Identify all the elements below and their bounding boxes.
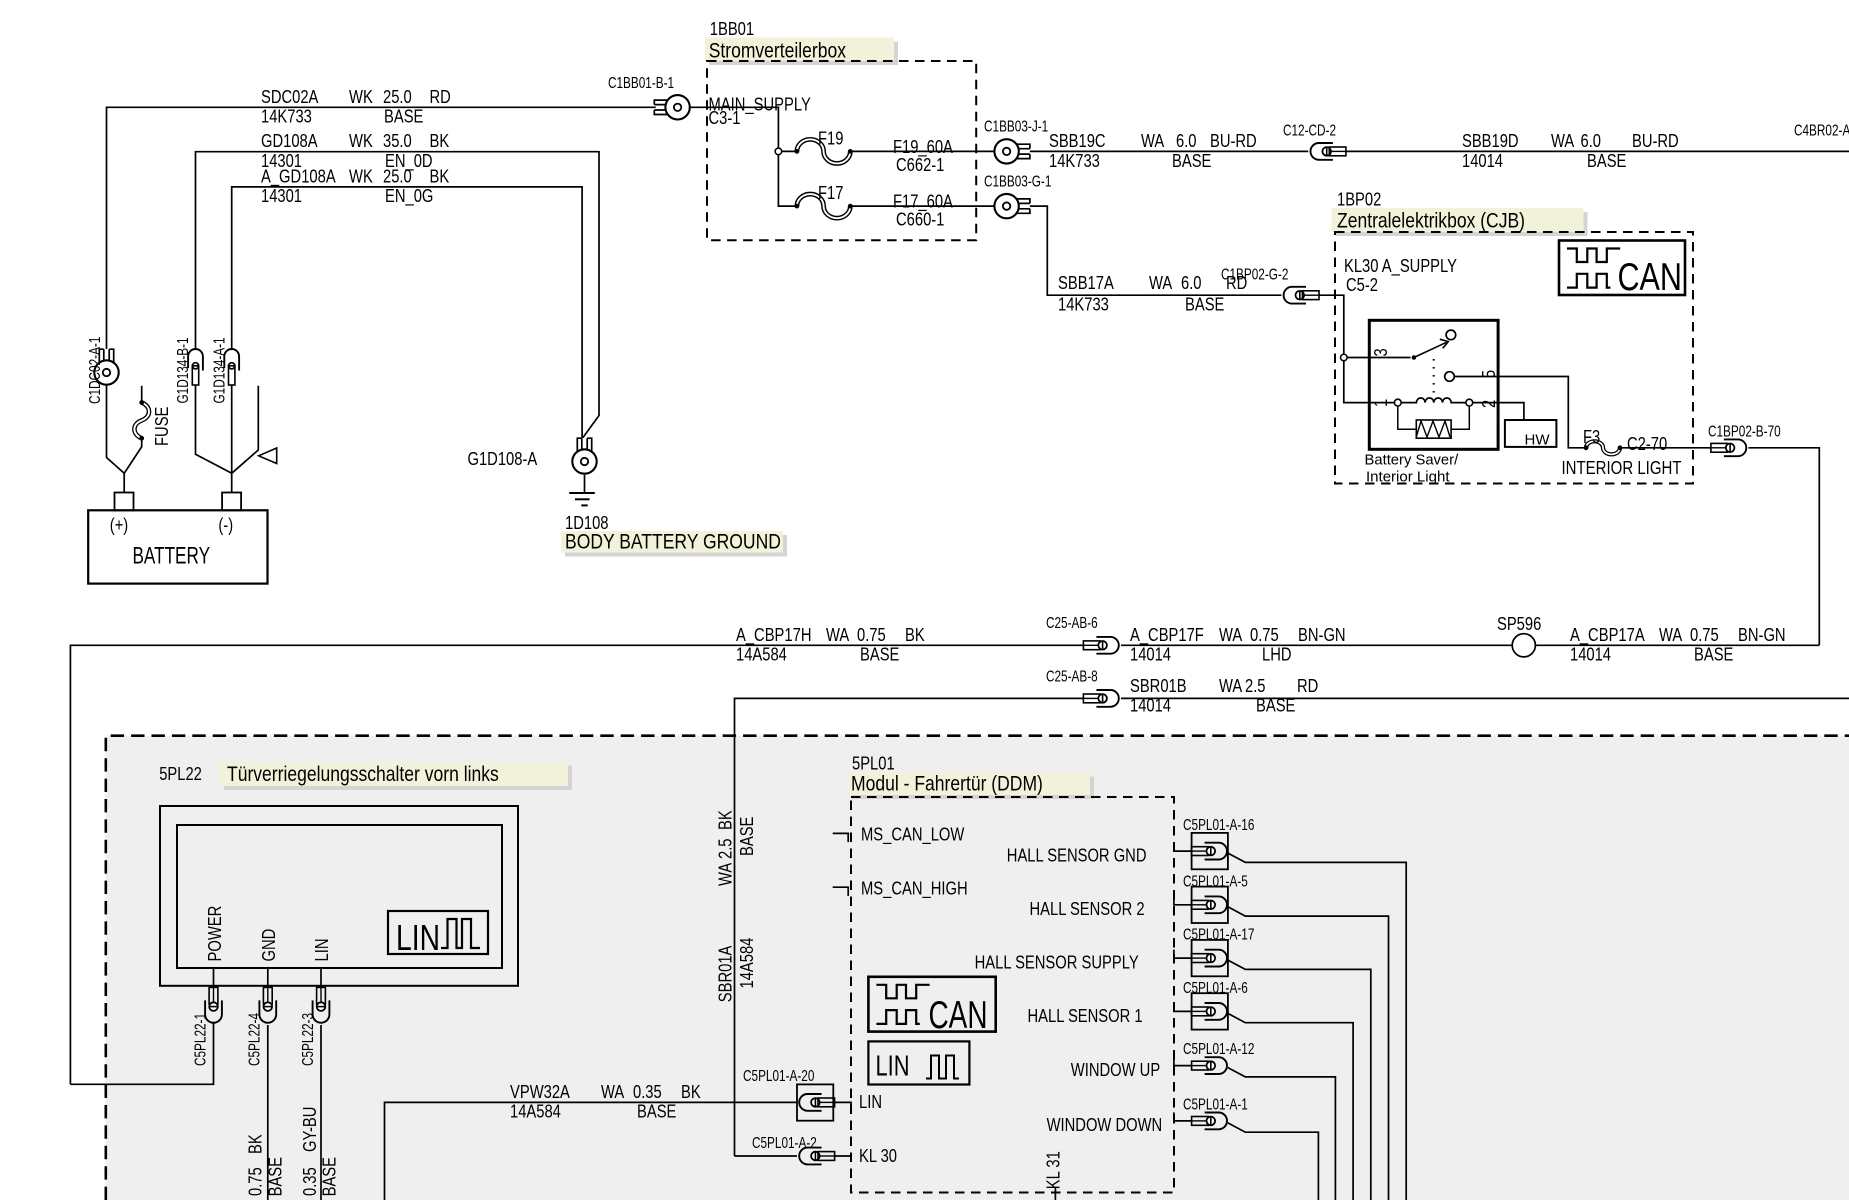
svg-text:C5PL01-A-6: C5PL01-A-6 xyxy=(1183,980,1248,997)
wire GND pin xyxy=(267,968,269,987)
connector C5PL22-4 xyxy=(263,987,272,1004)
svg-text:C5PL22-3: C5PL22-3 xyxy=(300,1013,317,1066)
MS_CAN_HIGH stub xyxy=(833,887,849,896)
connector C1DC02-A-1 ring xyxy=(99,349,113,363)
connector C1BB03-J-1 ring xyxy=(1016,144,1030,158)
svg-text:GD108A: GD108A xyxy=(261,131,318,151)
relay coil xyxy=(1401,398,1466,403)
svg-text:1: 1 xyxy=(1371,399,1391,407)
connector C1BP02-B-70 xyxy=(1711,443,1728,452)
svg-text:2.5: 2.5 xyxy=(1245,676,1266,696)
svg-text:C5PL01-A-20: C5PL01-A-20 xyxy=(743,1068,815,1085)
svg-text:G1D134-B-1: G1D134-B-1 xyxy=(175,337,192,403)
svg-text:BASE: BASE xyxy=(1185,295,1224,315)
wire MAIN_SUPPLY from C1BB01-B-1 into 1BB01 xyxy=(690,107,779,151)
wire A_CBP17H row xyxy=(70,645,1083,1084)
wire F19 branch xyxy=(778,150,797,152)
svg-text:14A584: 14A584 xyxy=(737,938,757,989)
svg-text:BU-RD: BU-RD xyxy=(1210,131,1257,151)
svg-text:LIN: LIN xyxy=(876,1051,910,1083)
wire C5PL01-A-6 out xyxy=(1228,1013,1353,1200)
wire C1BP02-B-70 to interior light row xyxy=(1749,448,1820,646)
CJB 1BP02 dashed outline xyxy=(1335,232,1693,484)
svg-text:BATTERY: BATTERY xyxy=(133,543,211,570)
svg-text:1BP02: 1BP02 xyxy=(1337,190,1381,210)
fuse F19 xyxy=(797,139,850,163)
eyelet G1D134-B-1 xyxy=(188,349,203,370)
MS_CAN_LOW stub xyxy=(833,833,849,842)
svg-text:WA: WA xyxy=(1659,625,1682,645)
svg-text:BK: BK xyxy=(905,625,925,645)
svg-text:MS_CAN_LOW: MS_CAN_LOW xyxy=(861,825,964,846)
relay coil left terminal xyxy=(1394,399,1401,406)
wire GD108A ground feed xyxy=(196,152,600,438)
svg-text:G1D108-A: G1D108-A xyxy=(468,449,538,469)
LIN logo waveform DDM xyxy=(926,1056,959,1079)
CAN logo box CJB xyxy=(1559,241,1685,296)
svg-text:WA: WA xyxy=(1219,676,1242,696)
connector C12-CD-2 xyxy=(1311,143,1333,160)
svg-text:BASE: BASE xyxy=(320,1157,340,1196)
svg-text:EN_0G: EN_0G xyxy=(385,186,433,207)
svg-text:BASE: BASE xyxy=(1694,645,1733,665)
relay switch arrowhead xyxy=(1440,339,1449,348)
relay switch arm xyxy=(1414,342,1447,357)
svg-text:(-): (-) xyxy=(218,515,233,535)
wire LIN pin xyxy=(320,968,322,987)
connector C5PL01-A-17 xyxy=(1192,954,1209,963)
wire SBR01B to page edge xyxy=(1121,697,1849,699)
svg-text:WA: WA xyxy=(1149,273,1172,293)
svg-text:6.0: 6.0 xyxy=(1581,131,1602,151)
connector C5PL01-A-5 box xyxy=(1192,887,1228,923)
CAN logo box DDM xyxy=(868,977,995,1032)
svg-text:2: 2 xyxy=(1479,400,1499,408)
svg-text:BK: BK xyxy=(246,1134,266,1154)
wire C5PL01-A-1 lead xyxy=(1174,1112,1192,1121)
connector C5PL01-A-5 xyxy=(1192,900,1209,909)
wire C5PL01-A-16 out xyxy=(1228,853,1406,1200)
svg-text:BK: BK xyxy=(430,131,450,151)
svg-text:C5PL01-A-16: C5PL01-A-16 xyxy=(1183,817,1254,834)
connector C1BB01-B-1 ring xyxy=(654,100,668,114)
wire C5PL22-3 LIN down xyxy=(320,1025,322,1200)
wire fuse lead top stub xyxy=(141,386,143,401)
wire LIN pin into DDM xyxy=(835,1102,851,1107)
svg-text:C660-1: C660-1 xyxy=(896,210,944,230)
wire relay pin2 to HW module xyxy=(1473,403,1524,420)
svg-text:LHD: LHD xyxy=(1262,645,1292,665)
wire SBB19D C12-CD-2 to page edge xyxy=(1346,150,1849,152)
wire relay pin3 branch xyxy=(1344,357,1411,359)
svg-text:VPW32A: VPW32A xyxy=(510,1082,570,1102)
svg-text:6.0: 6.0 xyxy=(1176,131,1197,151)
svg-text:POWER: POWER xyxy=(205,906,225,962)
splice SP596 circle xyxy=(1512,634,1535,657)
connector C5PL22-1 xyxy=(209,987,218,1004)
svg-text:WINDOW UP: WINDOW UP xyxy=(1071,1060,1160,1080)
wire C5PL01-A-12 out xyxy=(1228,1068,1336,1200)
highlight Stromverteilerbox xyxy=(709,42,898,66)
relay pin5 contact circle xyxy=(1445,372,1455,382)
battery box xyxy=(88,510,267,583)
svg-text:25.0: 25.0 xyxy=(383,87,412,107)
connector C5PL01-A-6 box xyxy=(1192,993,1228,1029)
highlight Tuerverriegelungsschalter xyxy=(224,766,572,791)
svg-text:C662-1: C662-1 xyxy=(896,155,944,175)
ground symbol 1D108 xyxy=(569,492,595,494)
svg-text:14014: 14014 xyxy=(1570,645,1611,665)
svg-text:14K733: 14K733 xyxy=(261,107,312,127)
svg-text:WINDOW DOWN: WINDOW DOWN xyxy=(1047,1115,1163,1135)
svg-text:14K733: 14K733 xyxy=(1049,151,1100,171)
harness area dashed border top xyxy=(106,736,1849,1200)
svg-text:A_CBP17F: A_CBP17F xyxy=(1130,625,1204,646)
wire F17 branch xyxy=(778,151,797,206)
relay pivot dot xyxy=(1412,356,1416,360)
HW module box xyxy=(1505,420,1557,447)
connector C25-AB-8 xyxy=(1083,694,1100,703)
wire G1D108-A ground stem xyxy=(584,475,586,493)
CAN logo waveform CJB xyxy=(1567,249,1620,263)
connector C25-AB-6 xyxy=(1083,641,1100,650)
svg-text:WK: WK xyxy=(349,166,373,186)
svg-text:6.0: 6.0 xyxy=(1181,273,1202,293)
wire C5PL01-A-5 lead xyxy=(1174,896,1192,905)
svg-text:G1D134-A-1: G1D134-A-1 xyxy=(212,337,229,403)
svg-text:WA: WA xyxy=(715,863,735,886)
svg-text:KL 31: KL 31 xyxy=(1044,1151,1064,1189)
connector G1D108-A ring xyxy=(577,438,591,452)
svg-text:0.75: 0.75 xyxy=(1690,625,1719,645)
svg-text:KL30 A_SUPPLY: KL30 A_SUPPLY xyxy=(1344,256,1457,277)
svg-text:WA: WA xyxy=(601,1082,624,1102)
battery positive terminal xyxy=(115,493,134,511)
svg-text:C1BP02-G-2: C1BP02-G-2 xyxy=(1221,266,1288,283)
wire C5PL01-A-6 lead xyxy=(1174,1003,1192,1012)
svg-text:Stromverteilerbox: Stromverteilerbox xyxy=(709,38,847,62)
svg-text:C4BR02-A-1: C4BR02-A-1 xyxy=(1794,122,1849,139)
svg-text:BK: BK xyxy=(715,810,735,830)
svg-text:WA: WA xyxy=(826,625,849,645)
svg-text:HALL SENSOR SUPPLY: HALL SENSOR SUPPLY xyxy=(975,953,1139,973)
connector C5PL01-A-12 xyxy=(1192,1061,1209,1070)
wire KL30 pin into DDM xyxy=(835,1156,851,1161)
svg-text:14014: 14014 xyxy=(1130,696,1171,716)
svg-text:BASE: BASE xyxy=(637,1102,676,1122)
wire SDC02A battery positive feed xyxy=(107,107,656,349)
svg-text:HALL SENSOR GND: HALL SENSOR GND xyxy=(1007,846,1147,866)
svg-text:C3-1: C3-1 xyxy=(709,108,741,128)
svg-text:Battery Saver/: Battery Saver/ xyxy=(1365,452,1459,469)
svg-text:WK: WK xyxy=(349,131,373,151)
connector C5PL01-A-20 box xyxy=(797,1084,833,1120)
wire relay pin5 to F3 xyxy=(1454,377,1584,448)
svg-text:2.5: 2.5 xyxy=(715,839,735,860)
wire C5PL01-A-12 lead xyxy=(1174,1057,1192,1066)
svg-text:C5PL22-4: C5PL22-4 xyxy=(247,1013,264,1066)
svg-text:LIN: LIN xyxy=(859,1092,882,1112)
svg-text:0.35: 0.35 xyxy=(300,1167,320,1196)
wire VPW32A row xyxy=(385,1102,798,1200)
svg-text:BN-GN: BN-GN xyxy=(1738,625,1786,645)
wire body bracket to battery negative xyxy=(232,386,259,474)
svg-text:3: 3 xyxy=(1371,348,1391,356)
wire G1D134-A-1 eyelet to battery negative xyxy=(231,386,233,493)
wire coil right to resistor xyxy=(1451,406,1469,429)
svg-text:C12-CD-2: C12-CD-2 xyxy=(1283,122,1336,139)
svg-text:14014: 14014 xyxy=(1462,151,1503,171)
wire A_CBP17H to C5PL22-1 xyxy=(70,1022,213,1085)
svg-text:C1DC02-A-1: C1DC02-A-1 xyxy=(87,337,104,404)
svg-text:25.0: 25.0 xyxy=(383,166,412,186)
wire battery positive to C1DC02-A-1 xyxy=(107,385,125,493)
svg-text:BU-RD: BU-RD xyxy=(1632,131,1679,151)
svg-text:Türverriegelungsschalter vorn: Türverriegelungsschalter vorn links xyxy=(227,762,499,786)
DDM 5PL01 dashed outline xyxy=(851,797,1174,1193)
connector C5PL01-A-20 xyxy=(799,1094,821,1111)
connector C1BP02-G-2 xyxy=(1284,287,1306,304)
junction node circle at relay pin3 xyxy=(1341,354,1348,361)
svg-text:Interior Light: Interior Light xyxy=(1366,468,1450,485)
svg-text:5: 5 xyxy=(1479,370,1499,378)
svg-text:CAN: CAN xyxy=(929,994,988,1037)
svg-text:WA: WA xyxy=(1141,131,1164,151)
svg-text:HALL SENSOR 2: HALL SENSOR 2 xyxy=(1030,899,1145,919)
svg-text:LIN: LIN xyxy=(396,917,440,958)
svg-text:SP596: SP596 xyxy=(1497,614,1541,634)
svg-text:SBB19C: SBB19C xyxy=(1049,131,1106,151)
svg-text:BASE: BASE xyxy=(266,1157,286,1196)
wire F17 to C1BB03-G-1 xyxy=(850,205,994,207)
wire coil left to resistor xyxy=(1398,406,1417,429)
svg-text:HALL SENSOR 1: HALL SENSOR 1 xyxy=(1028,1006,1143,1026)
svg-text:C5PL01-A-1: C5PL01-A-1 xyxy=(1183,1096,1248,1113)
svg-text:Modul - Fahrertür (DDM): Modul - Fahrertür (DDM) xyxy=(851,771,1043,795)
svg-text:14A584: 14A584 xyxy=(510,1102,561,1122)
svg-text:(+): (+) xyxy=(110,515,128,535)
svg-text:A_GD108A: A_GD108A xyxy=(261,166,336,187)
svg-text:MS_CAN_HIGH: MS_CAN_HIGH xyxy=(861,878,968,899)
fuse F17 xyxy=(797,194,850,218)
svg-text:1BB01: 1BB01 xyxy=(710,19,754,39)
svg-text:0.75: 0.75 xyxy=(857,625,886,645)
svg-text:BK: BK xyxy=(430,166,450,186)
wire C5PL01-A-16 lead xyxy=(1174,843,1192,852)
wire fuse lead bottom to battery xyxy=(124,440,142,474)
connector C5PL01-A-2 xyxy=(799,1148,821,1165)
wire KL31 pin stub xyxy=(1054,1188,1056,1200)
svg-text:RD: RD xyxy=(1297,676,1318,696)
svg-text:F3: F3 xyxy=(1583,427,1600,447)
svg-text:BASE: BASE xyxy=(384,107,423,127)
wire C5PL01-A-5 out xyxy=(1228,907,1389,1200)
connector C5PL01-A-16 box xyxy=(1192,833,1228,869)
door lock switch 5PL22 outer box xyxy=(160,806,518,986)
connector C5PL01-A-1 xyxy=(1192,1117,1209,1126)
svg-text:C2-70: C2-70 xyxy=(1627,434,1667,454)
wire SBB19C C1BB03-J-1 to C12-CD-2 xyxy=(1030,150,1308,152)
svg-text:CAN: CAN xyxy=(1618,256,1683,299)
svg-text:BODY BATTERY GROUND: BODY BATTERY GROUND xyxy=(565,530,781,554)
svg-text:BASE: BASE xyxy=(737,817,757,856)
highlight Zentralelektrikbox xyxy=(1336,212,1588,236)
body bracket triangle xyxy=(259,448,277,464)
svg-text:BASE: BASE xyxy=(860,645,899,665)
svg-text:Zentralelektrikbox (CJB): Zentralelektrikbox (CJB) xyxy=(1337,208,1525,232)
wire G1D134-B-1 eyelet to battery negative xyxy=(196,386,232,474)
svg-text:14A584: 14A584 xyxy=(736,645,787,665)
svg-text:35.0: 35.0 xyxy=(383,131,412,151)
svg-text:C5PL01-A-12: C5PL01-A-12 xyxy=(1183,1041,1254,1058)
svg-text:SDC02A: SDC02A xyxy=(261,87,318,107)
svg-text:INTERIOR LIGHT: INTERIOR LIGHT xyxy=(1562,458,1682,478)
wire A_CBP17A row xyxy=(1535,644,1819,646)
wire C5PL01-A-1 out xyxy=(1228,1123,1319,1200)
svg-text:14K733: 14K733 xyxy=(1058,295,1109,315)
wire C5PL22-4 GND down xyxy=(267,1025,269,1200)
power distribution box 1BB01 dashed outline xyxy=(707,61,976,240)
svg-text:A_CBP17A: A_CBP17A xyxy=(1570,625,1645,646)
connector C5PL22-3 xyxy=(317,987,326,1004)
svg-text:C5PL01-A-2: C5PL01-A-2 xyxy=(752,1135,817,1152)
svg-text:C25-AB-8: C25-AB-8 xyxy=(1046,669,1098,686)
connector C5PL01-A-17 box xyxy=(1192,940,1228,976)
svg-text:WA: WA xyxy=(1551,131,1574,151)
connector C1BB03-G-1 ring xyxy=(1016,199,1030,213)
svg-text:C25-AB-6: C25-AB-6 xyxy=(1046,615,1098,632)
relay resistor zigzag xyxy=(1416,421,1450,437)
svg-text:C5PL22-1: C5PL22-1 xyxy=(193,1013,210,1066)
svg-text:F19: F19 xyxy=(818,128,843,148)
wire F3 to C1BP02-B-70 xyxy=(1622,447,1711,449)
wire SBB17A C1BB03-G-1 down xyxy=(1030,206,1282,295)
highlight Modul Fahrertuer DDM xyxy=(852,777,1094,800)
svg-text:SBR01B: SBR01B xyxy=(1130,676,1187,696)
svg-text:LIN: LIN xyxy=(312,939,332,962)
svg-text:C1BP02-B-70: C1BP02-B-70 xyxy=(1708,423,1781,440)
gray harness area background xyxy=(106,736,1849,1200)
wire A_GD108A ground feed xyxy=(232,187,582,438)
connector C5PL01-A-16 xyxy=(1192,847,1209,856)
svg-text:5PL22: 5PL22 xyxy=(159,764,202,784)
LIN logo box 5PL22 xyxy=(388,911,488,954)
svg-text:0.75: 0.75 xyxy=(246,1167,266,1196)
svg-text:C5-2: C5-2 xyxy=(1346,275,1378,295)
svg-text:BASE: BASE xyxy=(1172,151,1211,171)
svg-text:C1BB03-J-1: C1BB03-J-1 xyxy=(984,119,1048,136)
wire POWER pin xyxy=(213,968,215,987)
svg-text:0.35: 0.35 xyxy=(633,1082,662,1102)
relay coil right terminal xyxy=(1466,399,1473,406)
svg-text:WA: WA xyxy=(1219,625,1242,645)
svg-text:BASE: BASE xyxy=(1587,151,1626,171)
svg-text:WK: WK xyxy=(349,87,373,107)
svg-text:C1BB01-B-1: C1BB01-B-1 xyxy=(608,75,674,92)
CAN logo waveform DDM xyxy=(876,985,929,999)
svg-text:14014: 14014 xyxy=(1130,645,1171,665)
eyelet G1D134-A-1 xyxy=(224,349,239,371)
wire C5PL01-A-17 out xyxy=(1228,960,1371,1200)
svg-text:BASE: BASE xyxy=(1256,696,1295,716)
LIN logo box DDM xyxy=(868,1041,969,1084)
relay dotted link xyxy=(1433,359,1435,393)
door lock switch 5PL22 inner box xyxy=(177,825,502,968)
svg-text:C1BB03-G-1: C1BB03-G-1 xyxy=(984,173,1051,190)
fuse F3 xyxy=(1586,441,1620,454)
connector C5PL01-A-6 xyxy=(1192,1007,1209,1016)
svg-text:A_CBP17H: A_CBP17H xyxy=(736,625,812,646)
svg-text:RD: RD xyxy=(430,87,451,107)
svg-text:HW: HW xyxy=(1525,432,1551,449)
wire SBB17A into CJB pin C5-2 xyxy=(1319,295,1394,402)
junction node circle at fuse branch xyxy=(775,148,782,155)
relay box Battery Saver xyxy=(1369,320,1498,449)
svg-text:BK: BK xyxy=(681,1082,701,1102)
battery negative terminal xyxy=(222,493,241,511)
svg-text:KL 30: KL 30 xyxy=(859,1146,897,1166)
relay NO contact circle xyxy=(1446,330,1456,340)
svg-text:BN-GN: BN-GN xyxy=(1298,625,1346,645)
highlight BODY BATTERY GROUND xyxy=(565,535,787,557)
svg-text:C5PL01-A-5: C5PL01-A-5 xyxy=(1183,873,1248,890)
svg-text:F17: F17 xyxy=(818,183,843,203)
svg-text:14301: 14301 xyxy=(261,186,302,206)
wire F19 to C1BB03-J-1 xyxy=(850,150,994,152)
svg-text:SBR01A: SBR01A xyxy=(715,946,735,1003)
wire C5PL01-A-17 lead xyxy=(1174,950,1192,959)
relay resistor box xyxy=(1416,420,1451,438)
fuse inline battery xyxy=(134,403,149,439)
wire A_CBP17F row xyxy=(1121,644,1512,646)
svg-text:FUSE: FUSE xyxy=(152,407,172,446)
svg-text:SBB19D: SBB19D xyxy=(1462,131,1519,151)
wire SBR01B row xyxy=(735,698,1084,1156)
svg-text:GND: GND xyxy=(259,929,279,962)
svg-text:GY-BU: GY-BU xyxy=(300,1107,320,1152)
svg-text:0.75: 0.75 xyxy=(1250,625,1279,645)
LIN logo waveform 5PL22 xyxy=(441,919,480,948)
svg-text:C5PL01-A-17: C5PL01-A-17 xyxy=(1183,927,1254,944)
svg-text:SBB17A: SBB17A xyxy=(1058,273,1114,293)
wire KL30 lead to C5PL01-A-2 xyxy=(735,1155,798,1157)
